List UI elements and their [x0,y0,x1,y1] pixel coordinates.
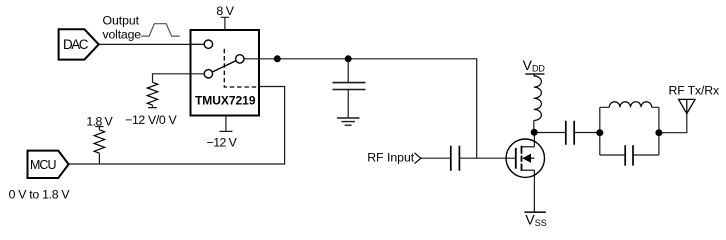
svg-text:0 V to 1.8 V: 0 V to 1.8 V [9,188,71,202]
svg-text:TMUX7219: TMUX7219 [195,93,256,107]
svg-text:8 V: 8 V [216,4,234,18]
svg-text:Output: Output [103,13,140,27]
svg-text:−12 V/0 V: −12 V/0 V [125,113,177,127]
svg-text:1.8 V: 1.8 V [86,115,113,129]
svg-text:MCU: MCU [30,158,57,172]
svg-text:RF Input: RF Input [367,151,415,165]
svg-text:voltage: voltage [103,27,142,41]
svg-text:RF Tx/Rx: RF Tx/Rx [669,83,721,97]
svg-text:DAC: DAC [63,37,89,52]
svg-text:−12 V: −12 V [207,135,238,149]
